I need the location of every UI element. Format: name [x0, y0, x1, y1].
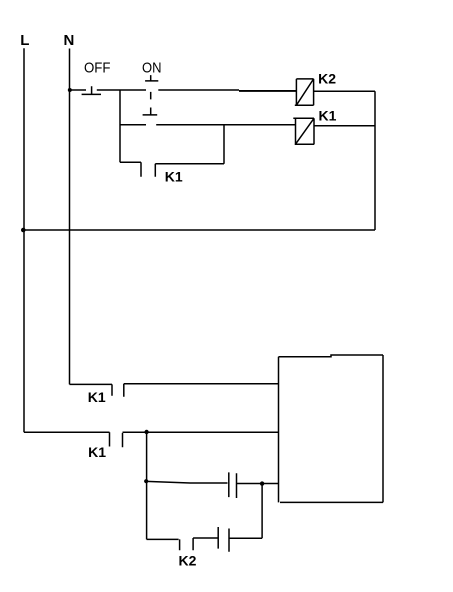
node rowC left junction dot [144, 479, 148, 483]
wire bottom return to L [24, 229, 375, 231]
contact K1 seal-in normally-open [141, 162, 155, 176]
wire vertical B from rowB down [146, 432, 148, 539]
wire rowB to motor box [123, 431, 279, 433]
label K2 rowD contact [179, 553, 197, 569]
svg-text:ON: ON [142, 59, 162, 76]
wire vertical branch row1 to seal circuit [119, 90, 121, 162]
svg-text:K2: K2 [318, 71, 336, 87]
wire row1 from N to OFF [70, 89, 87, 91]
wire rowA to motor box [124, 383, 279, 385]
wire K1 coil to right rail [314, 125, 375, 127]
node N-row1 junction dot [68, 88, 72, 92]
net N label [64, 32, 75, 49]
relay coil K1 [293, 118, 314, 144]
label ON [142, 59, 162, 76]
wire rowD left segment [147, 538, 179, 540]
wire seal branch right horizontal [155, 163, 224, 165]
capacitor C-run [229, 472, 237, 498]
node rowC right junction dot [260, 481, 264, 485]
node L-return junction dot [21, 228, 26, 233]
svg-text:L: L [20, 32, 29, 49]
wire L rail vertical [23, 48, 25, 432]
svg-text:N: N [64, 32, 75, 49]
wire rowC right segment to motor box [237, 483, 279, 485]
wire rowD middle segment [193, 537, 218, 539]
label K1 rowA [88, 389, 106, 405]
wire N rail vertical [69, 49, 71, 385]
svg-text:K2: K2 [179, 553, 197, 569]
wire right rail vertical [374, 91, 376, 230]
wire row1 ON to K2 coil [158, 89, 239, 91]
svg-text:K1: K1 [165, 168, 183, 184]
capacitor C-start [218, 527, 229, 552]
wire row1 OFF to ON gap [97, 89, 146, 91]
contact K2 rowD normally-open [180, 538, 194, 550]
label K1 rowB [88, 444, 106, 460]
label K2 coil [318, 71, 336, 87]
svg-text:OFF: OFF [84, 59, 111, 76]
relay coil K2 [295, 79, 314, 105]
wire K2 coil to right rail [314, 90, 375, 92]
wire seal branch right vertical to row2 [223, 125, 225, 164]
wire row2 ON pole2 to K1 coil [156, 124, 295, 126]
svg-text:K1: K1 [88, 389, 106, 405]
wire rowC left segment [147, 481, 228, 483]
pushbutton ON pole1 bar and actuator [143, 75, 159, 115]
motor box [279, 355, 384, 502]
svg-text:K1: K1 [88, 444, 106, 460]
label OFF [84, 59, 111, 76]
contact K1 rowA normally-open [112, 384, 124, 397]
net L label [20, 32, 29, 49]
wire row2 left segment [120, 124, 146, 126]
wire L elbow to K1 contact rowB [24, 431, 110, 433]
wire N elbow to K1 contact rowA [70, 383, 113, 385]
node rowB junction dot [144, 430, 148, 434]
wire seal branch left horizontal [120, 161, 141, 163]
wire vertical C down to rowD [261, 484, 263, 539]
contact K1 rowB normally-open [110, 432, 123, 447]
wire rowD right segment [229, 537, 262, 539]
label K1 coil [319, 107, 337, 123]
label K1 seal contact [165, 168, 183, 184]
svg-text:K1: K1 [319, 107, 337, 123]
pushbutton OFF normally-closed contact [82, 86, 101, 94]
